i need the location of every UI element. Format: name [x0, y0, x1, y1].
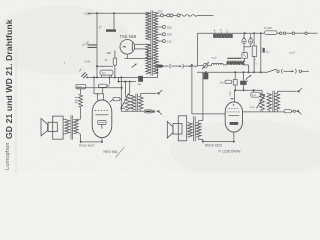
- title: GD 21 und WD 21. Drahtfunk: [4, 19, 14, 139]
- SP1 primary leads: [63, 118, 65, 120]
- wire T2 bottom: [121, 110, 144, 112]
- mains flexible cord: [180, 15, 198, 17]
- node t1: [244, 32, 246, 34]
- wire V1 to transformer tap: [134, 48, 147, 50]
- SP1 frame: [53, 116, 63, 139]
- resistor R8: [233, 79, 237, 85]
- wire left vertical: [96, 13, 98, 77]
- resistor R10: [284, 110, 291, 113]
- electrolytic C7: [203, 73, 208, 79]
- V3 screen: [228, 107, 239, 109]
- node j2: [113, 12, 115, 14]
- V3 anode bar: [228, 115, 239, 117]
- rectifier tube V1: [120, 40, 135, 55]
- wire to jack: [140, 93, 142, 96]
- resistor R2 box: [76, 84, 86, 89]
- choke L2: [227, 57, 241, 59]
- wire choke to bus: [248, 65, 250, 72]
- node j1: [96, 12, 98, 14]
- SP2 transformer core: [193, 116, 195, 141]
- SP2 frame: [178, 116, 186, 141]
- plug arrow PL3: [296, 110, 299, 113]
- V3 grid wire: [192, 113, 226, 115]
- node a3: [93, 76, 95, 78]
- T3 core: [272, 91, 274, 112]
- switch S3: [267, 69, 277, 72]
- V3 grid: [227, 111, 240, 113]
- grid feed vertical: [191, 65, 193, 114]
- T1 tap 220V: [158, 33, 163, 35]
- resistor R7 box: [225, 80, 232, 84]
- SP1 transformer core: [70, 115, 72, 139]
- wire bus B: [76, 87, 122, 89]
- barretter lamps: [243, 33, 245, 37]
- speaker SP1 cone: [41, 119, 48, 136]
- mains lead with plug: [158, 15, 161, 17]
- capacitor C1 0,1uF: [88, 44, 97, 46]
- output transformer T2 primary: [131, 95, 136, 109]
- node a4: [114, 76, 116, 78]
- V1 filament: [123, 46, 126, 47]
- wire R1 tap: [97, 65, 113, 67]
- SP2 secondary top lead: [198, 121, 200, 123]
- node a5: [120, 76, 122, 78]
- switch arrow S1: [132, 64, 137, 67]
- node a2: [109, 76, 111, 78]
- potentiometer P1: [125, 96, 130, 110]
- SP2 secondary bottom lead: [198, 137, 200, 139]
- wire top bus: [88, 12, 151, 14]
- resistor R3 (zigzag): [80, 89, 82, 95]
- tube V3 RENS1823: [225, 102, 242, 132]
- capacitor C8 (block): [240, 81, 246, 85]
- V2 grid: [95, 109, 110, 111]
- wire, sockets to line: [277, 32, 280, 34]
- wire cathode return: [203, 141, 234, 143]
- node a0: [86, 77, 88, 79]
- capacitor C6 2uF: [260, 32, 262, 34]
- SP2 transformer primary: [188, 123, 193, 138]
- wire bottom bus: [197, 71, 267, 73]
- potentiometer P2: [260, 93, 265, 110]
- corner vertical: [197, 33, 199, 61]
- wire bus A2: [119, 81, 137, 83]
- wire top line: [198, 32, 264, 34]
- wire anode row: [235, 89, 262, 91]
- capacitor C5 box: [242, 53, 248, 59]
- title: Lumophon: [5, 142, 11, 170]
- T1 tap 110V: [158, 40, 163, 42]
- T2 core: [135, 94, 137, 112]
- T2 top lead: [130, 94, 133, 96]
- pointer line: [116, 147, 125, 158]
- resistor R9 box: [253, 90, 255, 92]
- V2 anode: [96, 114, 109, 116]
- wire to jack top: [276, 91, 278, 93]
- output tube V2 RES964: [92, 100, 112, 138]
- T1 tap 250V: [158, 26, 163, 28]
- scan noise overlay: [0, 0, 1, 1]
- wire grid step: [93, 77, 95, 93]
- detachable link: [169, 64, 172, 69]
- V3 anode lead: [234, 90, 236, 102]
- wire V1 cathode: [126, 54, 128, 58]
- SP1 secondary leads: [76, 118, 81, 120]
- resistor R6: [253, 33, 255, 46]
- SP1 transformer secondary: [74, 119, 79, 134]
- wire drop to C2: [113, 13, 115, 29]
- plug S4: [246, 76, 250, 80]
- V3 cathode lead: [233, 132, 235, 142]
- wire R3 to speaker transformer: [79, 107, 81, 119]
- T1 primary winding upper: [146, 12, 150, 40]
- wire bottom row: [243, 111, 285, 113]
- speaker SP2 cone: [167, 122, 173, 139]
- V3 cathode: [230, 122, 239, 125]
- plug arrow PL4: [296, 90, 299, 93]
- wire drops to output transformer: [120, 77, 122, 111]
- T1 primary winding lower: [146, 44, 150, 74]
- wire V1 anode to transformer: [135, 43, 151, 45]
- output transformer T3 primary: [267, 93, 272, 110]
- SP1 voice coil: [48, 122, 57, 131]
- V2 cathode lead: [101, 138, 103, 142]
- T2 secondary: [138, 96, 143, 109]
- SP2 voice coil: [173, 124, 182, 135]
- T3 secondary: [275, 93, 280, 110]
- transformer T1 core: [150, 11, 152, 76]
- resistor R5: [145, 110, 152, 113]
- V2 cathode: [98, 121, 106, 125]
- plug arrow PL2: [156, 92, 159, 95]
- capacitor C4 (block on bus A): [138, 76, 143, 82]
- node a1: [96, 76, 98, 78]
- wire T1 bottom to bus A: [157, 67, 159, 77]
- choke Dr box: [100, 70, 113, 75]
- T1 secondary winding: [153, 12, 157, 74]
- SP1 transformer primary: [65, 119, 70, 134]
- wire bus A: [87, 76, 158, 78]
- label a=40V (vertical): [229, 91, 232, 97]
- resistor R11 box: [113, 97, 120, 101]
- plug arrow PL1: [156, 110, 159, 113]
- resistor R4 box: [98, 84, 107, 87]
- capacitor C3 (diagonal): [81, 72, 85, 76]
- wire cathode return: [81, 141, 102, 143]
- speck artifact: [64, 62, 65, 63]
- SP2 transformer secondary: [196, 123, 201, 138]
- V1 anode bar: [131, 43, 133, 52]
- capacitor C2 (block): [106, 29, 116, 32]
- V2 anode lead: [110, 99, 113, 101]
